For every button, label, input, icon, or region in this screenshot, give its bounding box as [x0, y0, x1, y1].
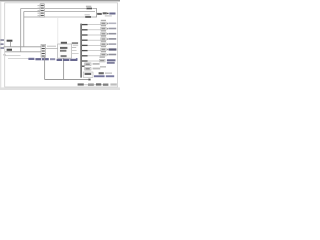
page background [0, 0, 120, 90]
bottom gray strip [0, 87, 120, 90]
bottom arrow wire [45, 79, 89, 81]
right row group y55.8 [101, 51, 117, 56]
text in labelled box [85, 73, 92, 75]
bus entry y50.6 [82, 50, 88, 52]
faint text right column y67 [100, 66, 106, 68]
bottom row: component box 2 [103, 84, 108, 86]
bus entry y45.4 [82, 44, 88, 46]
wire y45.4 [88, 44, 101, 46]
wire y55.8 [88, 55, 101, 57]
IC right wires [72, 47, 77, 49]
left component bar 2 [7, 49, 12, 51]
left wire y46.8 [4, 46, 41, 48]
wire left horizontal y17 [24, 16, 40, 18]
bottom row: text 2 [96, 83, 101, 85]
wire connector right y17 [45, 16, 85, 18]
right row group y61 [99, 57, 115, 64]
IC top label [61, 42, 67, 44]
connector J2 lower [41, 44, 46, 57]
IC inner text 1 [60, 47, 67, 49]
bottom row: faint text [110, 83, 116, 85]
connector J2 pins [42, 46, 45, 57]
wire top-left horizontal y11.5 [24, 11, 40, 13]
resistor R1 top right [86, 8, 92, 10]
arrow top right [107, 13, 109, 14]
faint text below top right [105, 15, 112, 16]
arrow head [88, 79, 90, 81]
label above connector J1 [40, 3, 44, 4]
bus entry y29.8 [82, 29, 88, 31]
vertical from bar1 [9, 42, 11, 47]
wire vertical x23.8 [23, 12, 25, 47]
bottom row: wire [84, 84, 103, 86]
top gray strip [0, 0, 120, 1]
connector J1 top [40, 4, 45, 17]
label above R2 [85, 14, 90, 15]
blue text under connector area [28, 58, 34, 60]
wire from J2 down [44, 57, 46, 79]
label above R1 [86, 6, 91, 7]
small box bottom right b [85, 68, 101, 71]
faint symbol left bottom [3, 54, 6, 55]
right row group y24.6: box, top text, label [101, 20, 117, 25]
wire y61 [88, 60, 100, 62]
small box bottom right a [85, 63, 100, 66]
wire R1 to corner [92, 9, 100, 14]
wire R2 to corner up [91, 14, 97, 18]
left wire y51.8 [5, 51, 41, 53]
bus entry y55.8 [82, 55, 88, 57]
wire connector right y11.5 [45, 11, 95, 13]
bus vertical [80, 24, 82, 78]
bus entry y66.2 [82, 65, 85, 67]
wire y29.8 [88, 29, 101, 31]
connector J1 pins [41, 5, 44, 16]
faint text right of IC [73, 45, 78, 46]
IC inner text 2 [60, 50, 66, 52]
wire y24.6 [88, 24, 101, 26]
bottom row: text 1 [78, 83, 84, 85]
dark text right of box [99, 72, 104, 74]
labelled box bottom right [83, 72, 93, 77]
IC top right text [72, 42, 78, 44]
right row group y29.8 [101, 25, 117, 30]
bus entry y24.6 [82, 24, 88, 26]
wire connector right y8.5 [45, 8, 86, 10]
resistor R2 on y17 wire [85, 16, 91, 18]
blue dot [76, 58, 78, 60]
main IC U1 box [58, 44, 72, 58]
page border frame [5, 3, 118, 87]
left component bar 1 [7, 40, 13, 42]
IC inner bottom text [61, 55, 67, 57]
right row group y50.6 [101, 46, 117, 51]
left gray strip [0, 2, 1, 88]
net name text top right [109, 13, 115, 15]
wire y35 [88, 34, 101, 36]
connector J1 pin numbers [38, 5, 40, 16]
left wire y55.7 [5, 55, 21, 57]
net label top right 1 [97, 13, 102, 15]
bus entry y35 [82, 34, 88, 36]
right row group y40.2 [101, 35, 117, 40]
IC bottom wire vertical [63, 58, 65, 79]
wire vertical x57.8 faint [57, 17, 59, 44]
wire connector2 to IC [46, 48, 58, 50]
right row group y35 [101, 30, 117, 35]
wire y40.2 [88, 39, 101, 41]
right row group y45.4 [101, 41, 117, 46]
blue text row bottom right [94, 75, 105, 77]
faint text above wire [47, 46, 56, 47]
left wire y58.7 [8, 58, 29, 60]
bottom row: component box 1 [88, 84, 94, 86]
wire y50.6 [88, 50, 101, 52]
wire top-left horizontal y8.5 [21, 8, 40, 10]
net label top right 2 [103, 12, 107, 14]
bus entry y61 [82, 60, 88, 62]
left margin text block [0, 39, 4, 49]
bus entry y40.2 [82, 39, 88, 41]
wire vertical x20.7 [20, 9, 22, 52]
